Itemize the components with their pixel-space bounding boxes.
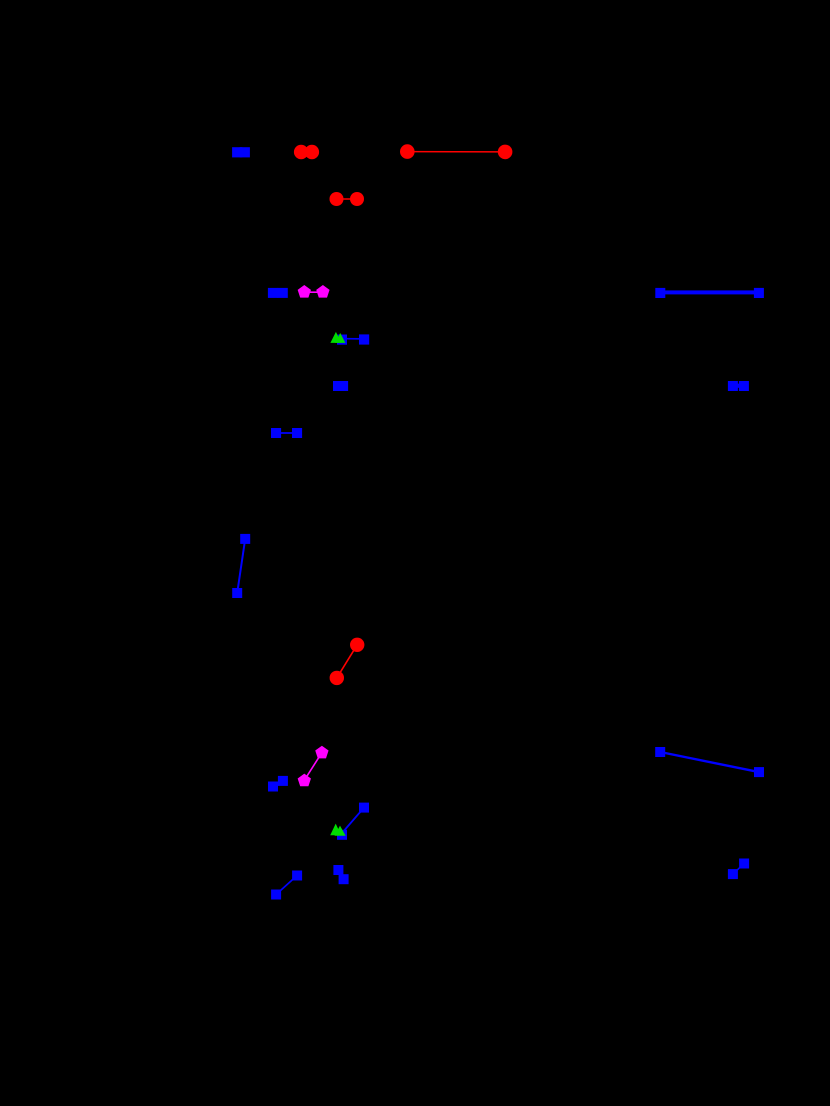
red circle pair B (row 1 middle) (294, 145, 319, 159)
blue square dumbbell K (row 6) (271, 428, 302, 438)
blue/green sloped cluster Q (330, 803, 369, 840)
blue square pair I (row 5 left) (333, 381, 348, 391)
blue square pair A (row 1 left) (232, 147, 250, 157)
blue stair pair T (bottom right) (728, 859, 749, 880)
blue sloped dumbbell L (232, 534, 250, 598)
blue stair pair R (333, 865, 348, 884)
blue stair pair O (268, 776, 288, 792)
blue square pair J (row 5 right) (728, 381, 749, 391)
blue square pair E (row 3 left) (268, 288, 288, 298)
magenta pentagon dumbbell F (row 3) (298, 285, 330, 298)
blue square dumbbell G (row 3 right, wide) (655, 288, 764, 298)
red dumbbell D (row 2) (330, 192, 365, 206)
magenta sloped pentagon dumbbell N (298, 746, 329, 787)
red dumbbell C (row 1 right) (400, 144, 512, 159)
blue sloped dumbbell P (bottom right wide) (655, 747, 764, 777)
red sloped dumbbell M (330, 638, 365, 686)
blue sloped dumbbell S (271, 871, 302, 900)
blue-square / green-triangle cluster H (row 4) (330, 332, 369, 345)
